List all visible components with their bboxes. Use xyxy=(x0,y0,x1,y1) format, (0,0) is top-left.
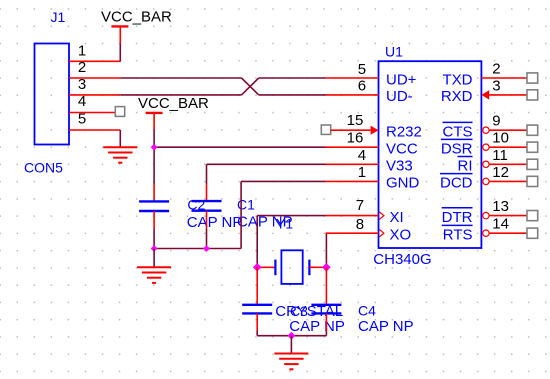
wire U1 XO corner down to crystal xyxy=(325,233,327,267)
wire C2 bottom to ground rail xyxy=(153,228,155,248)
svg-text:14: 14 xyxy=(492,216,509,233)
svg-text:CAP NP: CAP NP xyxy=(358,318,414,335)
wire VCC_BAR stem to VCC node xyxy=(153,130,155,148)
svg-text:R232: R232 xyxy=(386,124,422,141)
pin 1 of J1 xyxy=(69,42,121,61)
wire J1 pin 3 to crossover xyxy=(121,94,242,96)
wire J1 pin 5 down to ground xyxy=(119,130,121,147)
svg-text:XI: XI xyxy=(390,209,404,226)
wire crystal ground rail xyxy=(257,335,326,337)
pin 6 UD- of U1 xyxy=(326,77,413,105)
svg-text:DSR: DSR xyxy=(441,141,473,158)
svg-text:CTS: CTS xyxy=(443,124,473,141)
svg-text:XO: XO xyxy=(390,227,412,244)
svg-text:9: 9 xyxy=(492,113,500,130)
power port VCC_BAR (middle) xyxy=(138,95,209,130)
svg-text:3: 3 xyxy=(78,76,86,93)
svg-text:2: 2 xyxy=(492,61,500,78)
terminal square RI xyxy=(527,159,538,169)
wire C1 bottom to ground rail xyxy=(206,228,208,248)
svg-text:VCC_BAR: VCC_BAR xyxy=(138,95,209,112)
svg-text:4: 4 xyxy=(78,93,86,110)
junction crystal left xyxy=(253,263,262,272)
pin 2 of J1 xyxy=(69,59,121,78)
wire crossover diagonal down (pin2 to UD-) xyxy=(242,78,259,95)
pin 9 CTS of U1 xyxy=(443,113,528,141)
pin 8 XO of U1 xyxy=(326,216,412,244)
svg-text:12: 12 xyxy=(492,164,509,181)
pin 10 DSR of U1 xyxy=(441,130,527,158)
wire XI corner down to crystal xyxy=(256,216,258,268)
svg-text:4: 4 xyxy=(358,147,366,164)
pin 16 VCC of U1 xyxy=(326,129,418,157)
svg-text:2: 2 xyxy=(78,59,86,76)
connector J1 body xyxy=(35,44,70,145)
wire VCC node to U1 VCC xyxy=(154,146,325,148)
wire VCC node down to C2 xyxy=(153,147,155,184)
pin 13 DTR of U1 xyxy=(442,198,527,226)
svg-text:13: 13 xyxy=(492,198,509,215)
svg-text:DTR: DTR xyxy=(442,209,473,226)
svg-text:6: 6 xyxy=(358,77,366,94)
pin 11 RI of U1 xyxy=(458,147,528,175)
IC U1 body xyxy=(379,61,482,248)
svg-text:1: 1 xyxy=(358,164,366,181)
svg-text:7: 7 xyxy=(356,197,364,214)
pin 5 of J1 xyxy=(69,111,120,130)
junction C1 ground xyxy=(203,245,210,252)
pin 5 UD+ of U1 xyxy=(326,61,417,88)
pin 7 XI of U1 xyxy=(326,197,404,226)
ground symbol at J1 pin 5 xyxy=(103,147,137,162)
svg-text:J1: J1 xyxy=(51,9,66,25)
ground symbol below crystal xyxy=(274,354,308,370)
svg-text:CH340G: CH340G xyxy=(373,251,431,268)
svg-text:RI: RI xyxy=(458,158,473,175)
svg-text:3: 3 xyxy=(492,77,500,94)
wire U1 XI to corner xyxy=(257,215,325,217)
wire crossover to U1 UD+ xyxy=(259,77,326,79)
svg-text:C3: C3 xyxy=(290,303,308,319)
svg-text:Y1: Y1 xyxy=(276,216,293,232)
wire GND corner down xyxy=(240,181,242,248)
wire crossover to U1 UD- xyxy=(259,94,326,96)
svg-text:RTS: RTS xyxy=(443,227,473,244)
svg-text:DCD: DCD xyxy=(440,175,473,192)
svg-text:10: 10 xyxy=(492,130,509,147)
terminal square TXD xyxy=(527,73,538,83)
capacitor C3 xyxy=(242,267,272,330)
wire VCC_BAR to J1 pin 1 xyxy=(119,43,121,61)
svg-text:RXD: RXD xyxy=(441,88,473,105)
svg-text:VCC: VCC xyxy=(386,141,418,158)
svg-text:11: 11 xyxy=(492,147,508,164)
crystal Y1 xyxy=(257,250,326,284)
capacitor C1 xyxy=(192,184,222,228)
wire crystal ground stem xyxy=(290,336,292,353)
svg-text:U1: U1 xyxy=(385,44,403,60)
terminal square DTR xyxy=(527,211,538,221)
wire ground rail stem xyxy=(153,249,155,267)
pin 2 TXD of U1 xyxy=(443,61,528,89)
no-connect square on J1 pin 4 xyxy=(115,107,124,117)
wire ground rail horizontal xyxy=(154,248,241,250)
pin 1 GND of U1 xyxy=(326,164,420,192)
capacitor C2 xyxy=(139,184,169,228)
wire J1 pin 2 to crossover xyxy=(121,77,242,79)
junction crystal right xyxy=(322,263,331,272)
svg-text:1: 1 xyxy=(78,42,86,59)
wire C3 bottom to ground rail xyxy=(256,331,258,336)
svg-text:CAP NP: CAP NP xyxy=(187,214,243,231)
power port VCC_BAR (top) xyxy=(101,8,172,43)
pin 12 DCD of U1 xyxy=(440,164,527,192)
terminal square DSR xyxy=(527,142,538,152)
svg-text:CON5: CON5 xyxy=(24,160,63,176)
svg-text:5: 5 xyxy=(358,61,366,78)
ground symbol below C2 xyxy=(137,267,171,283)
terminal square RXD xyxy=(527,90,538,100)
wire U1 V33 to C1 xyxy=(207,163,326,165)
junction crystal ground xyxy=(288,332,296,340)
svg-text:8: 8 xyxy=(356,216,364,233)
pin 14 RTS of U1 xyxy=(442,216,527,244)
junction C2 ground xyxy=(151,245,158,252)
svg-text:5: 5 xyxy=(78,111,86,128)
svg-text:UD-: UD- xyxy=(386,88,413,105)
svg-text:TXD: TXD xyxy=(443,71,473,88)
terminal square DCD xyxy=(527,176,538,186)
pin 4 of J1 xyxy=(69,93,115,112)
wire C4 bottom to ground rail xyxy=(325,331,327,336)
pin 3 of J1 xyxy=(69,76,121,95)
svg-text:GND: GND xyxy=(386,175,420,192)
svg-text:CAP NP: CAP NP xyxy=(289,318,345,335)
wire V33 corner down to C1 xyxy=(206,164,208,184)
svg-text:15: 15 xyxy=(347,112,364,129)
wire U1 GND to corner xyxy=(241,180,325,182)
capacitor C4 xyxy=(311,267,341,330)
terminal square CTS xyxy=(527,125,538,135)
svg-text:V33: V33 xyxy=(386,158,413,175)
svg-text:C4: C4 xyxy=(358,303,376,319)
pin 4 V33 of U1 xyxy=(326,147,413,175)
pin 15 R232 of U1 xyxy=(321,112,422,140)
svg-text:16: 16 xyxy=(347,129,364,146)
svg-text:C1: C1 xyxy=(237,197,255,213)
pin 3 RXD of U1 xyxy=(441,77,527,105)
terminal square RTS xyxy=(527,228,538,238)
wire crossover diagonal up (pin3 to UD+) xyxy=(242,78,259,95)
svg-text:UD+: UD+ xyxy=(386,71,417,88)
junction VCC node xyxy=(151,144,158,151)
svg-text:VCC_BAR: VCC_BAR xyxy=(101,8,172,25)
